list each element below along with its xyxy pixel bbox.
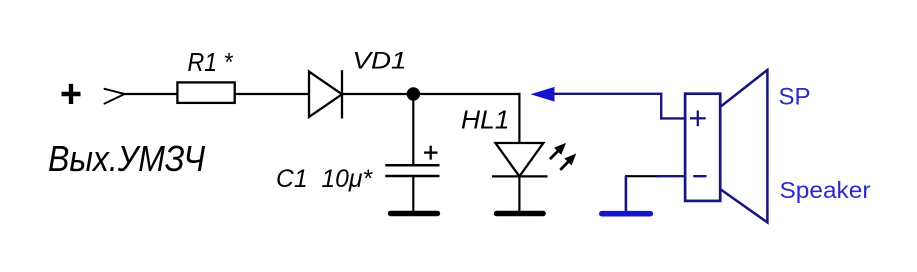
capacitor plus polarity mark: [424, 146, 438, 160]
capacitor C1: [385, 165, 439, 176]
LED HL1: [492, 143, 548, 176]
diode VD1: [309, 70, 342, 118]
speaker minus terminal mark: [693, 175, 706, 177]
wire node to C1: [412, 94, 414, 165]
ground (C1): [391, 211, 438, 216]
svg-text:SP: SP: [779, 84, 811, 111]
speaker SP body: [685, 94, 720, 201]
node junction dot: [407, 87, 420, 100]
speaker horn: [721, 70, 768, 223]
wire corner down through HL1: [518, 93, 520, 212]
signal direction arrow (blue): [531, 87, 555, 102]
wire speaker minus blue segment: [656, 175, 686, 177]
svg-text:R1 *: R1 *: [188, 47, 234, 77]
LED light emission arrows: [550, 143, 576, 170]
wire VD1 to LED corner: [342, 93, 521, 95]
svg-text:Speaker: Speaker: [780, 177, 871, 203]
input connector arrow: [105, 89, 125, 104]
wire input to R1: [125, 93, 177, 95]
ground (speaker, blue): [602, 211, 651, 217]
speaker plus terminal mark: [690, 111, 706, 127]
resistor R1: [177, 82, 234, 103]
svg-text:HL1: HL1: [461, 105, 510, 135]
wire speaker minus black segment: [625, 175, 660, 177]
svg-text:C1 10μ*: C1 10μ*: [276, 165, 373, 193]
svg-text:Вых.УМЗЧ: Вых.УМЗЧ: [48, 138, 206, 179]
wire R1 to VD1: [236, 93, 310, 95]
wire C1 to ground: [412, 176, 414, 212]
node plus polarity mark (input): [62, 84, 81, 104]
wire minus to ground (blue): [625, 176, 628, 211]
ground (HL1): [497, 211, 544, 216]
svg-text:VD1: VD1: [353, 47, 407, 74]
wire speaker plus to arrow (blue): [554, 94, 687, 119]
